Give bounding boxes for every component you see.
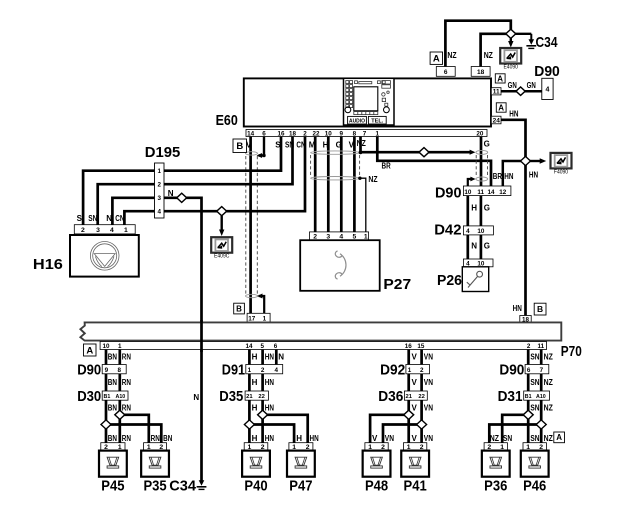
speaker P35 box [141,451,169,477]
svg-text:D35: D35 [219,388,243,405]
svg-text:10: 10 [464,189,472,196]
svg-text:GN: GN [527,81,536,90]
svg-text:14: 14 [487,189,495,196]
svg-text:2: 2 [261,367,265,374]
wire NZ from E60-7 to shields [361,133,471,152]
svg-text:D90: D90 [534,63,560,80]
speaker P40 box [242,451,270,477]
svg-text:18: 18 [477,69,485,76]
splice diamond (lower) [417,420,427,429]
pin box E60-24 (right side) [491,116,501,124]
connector strip P35 [144,443,167,451]
svg-text:H: H [252,403,258,412]
wire V from P70 to P48 (left of group) [407,350,410,443]
svg-text:20: 20 [476,130,484,137]
svg-text:SN: SN [503,434,512,443]
connector strip D36 [404,391,427,400]
ground C34 symbol [526,34,536,49]
svg-text:H16: H16 [33,256,63,273]
svg-text:BN: BN [108,378,117,387]
wire BR from E60-1 to D90-14 [377,133,491,186]
svg-text:P27: P27 [383,276,411,293]
svg-text:1: 1 [118,343,122,350]
wire GN from E60-11 to D90-4 [501,90,542,93]
control unit E60 (radio/nav) box [244,78,491,126]
label A (connector code) [430,52,442,65]
svg-text:H: H [252,434,258,443]
svg-text:AUDIO: AUDIO [349,118,365,124]
svg-text:3: 3 [157,195,161,202]
svg-text:P47: P47 [289,478,312,495]
svg-text:E409C: E409C [214,254,230,260]
connector strip D31 [524,391,550,400]
arrow from HN splice to F4090 [530,160,541,162]
connector strip D92 [406,365,430,374]
svg-text:RN: RN [122,403,131,412]
svg-text:A: A [497,74,503,83]
svg-text:CN: CN [296,141,305,150]
branch wire from lower splice [383,425,422,443]
svg-text:NZ: NZ [490,434,499,443]
svg-text:NZ: NZ [544,403,553,412]
P27 handset icon [335,251,346,279]
connector strip P70 (below bus) [100,342,546,350]
shield dashed lines (V wire) [245,156,247,294]
svg-text:2: 2 [527,343,531,350]
wire H from D90-10 to D42-4 [466,196,469,226]
wire G from E60-20 to D90-11 (shielded) [480,133,483,186]
svg-text:P45: P45 [101,478,124,495]
connector strip D91 [246,365,283,374]
svg-text:C34: C34 [169,478,196,495]
svg-text:12: 12 [499,189,507,196]
label A (near pin 11) [495,74,505,83]
svg-text:F4090: F4090 [554,169,568,175]
wire V from E60-14 to P70-17 (shielded) [249,133,252,313]
wire with arrow from CN splice to E409C [220,216,222,231]
svg-text:B: B [236,141,243,152]
svg-text:D92: D92 [380,362,405,379]
wire HN from P70 to group P40/P47 [261,350,264,443]
svg-text:SN: SN [88,214,97,223]
svg-text:G: G [336,141,342,150]
svg-text:11: 11 [477,189,484,196]
shield dashed lines (G wire) [475,155,477,177]
svg-text:S: S [275,141,281,150]
connector strip P36 [484,443,507,451]
svg-text:P35: P35 [143,478,166,495]
wire with arrow from splice down to E4090 [510,38,512,42]
device icon F4090 (ground point) [551,153,572,176]
svg-text:1: 1 [157,168,161,175]
connector strip D90 (middle) [463,186,511,196]
speaker P48 box [363,451,391,477]
wire NZ from E60 pin 18 to splice [481,34,507,67]
shield top lens (G wire) [476,150,488,154]
svg-text:A: A [433,54,440,65]
svg-text:6: 6 [262,130,266,137]
svg-text:2: 2 [81,227,85,234]
svg-text:2: 2 [157,181,161,188]
svg-text:6: 6 [274,343,278,350]
svg-text:SN: SN [530,352,539,361]
svg-text:NZ: NZ [447,51,456,60]
ground C34 (bottom) symbol [197,475,207,490]
svg-text:HN: HN [265,403,274,412]
wire BN from P70 to P45 (left of group) [105,350,108,443]
amplifier bus bar P70 [80,322,561,340]
svg-text:2: 2 [420,367,424,374]
label A (bottom right) [554,432,565,443]
branch wire from upper splice to P47 [263,415,308,443]
svg-text:11: 11 [537,343,544,350]
pin box 6 on top of E60 [436,67,455,77]
svg-text:P41: P41 [404,478,427,495]
svg-text:GN: GN [508,81,517,90]
svg-text:NZ: NZ [357,139,366,148]
svg-text:NZ: NZ [544,352,553,361]
svg-text:NZ: NZ [544,434,553,443]
wire CN from H16-1 via D195-4 to E60-2 [124,133,305,225]
wire RN from P70 to group P45/P35 [118,350,121,443]
connector strip P48 [365,443,388,451]
splice diamond (upper) [523,410,533,419]
svg-text:H: H [323,141,329,150]
connector strip P40 [244,443,268,451]
svg-text:4: 4 [275,367,279,374]
svg-text:N: N [193,393,199,402]
svg-text:E60: E60 [216,112,238,129]
svg-text:HN: HN [504,172,513,181]
svg-text:CN: CN [115,214,124,223]
svg-text:7: 7 [363,130,367,137]
svg-text:24: 24 [493,117,501,124]
svg-text:VN: VN [424,352,433,361]
wire V from E60-8 to P27-5 [353,133,356,232]
wire M from E60-22 to P27-2 (shielded bundle) [314,133,317,232]
svg-text:A: A [498,103,504,112]
wire N from D42-4 to P26-4 [466,235,469,259]
pin box E60-11 (right side) [491,88,501,95]
svg-text:V: V [372,434,378,443]
shield bottom lens (V wire) [246,294,258,297]
svg-text:V: V [412,378,418,387]
svg-text:N: N [106,214,112,223]
branch wire from lower splice [489,425,541,443]
svg-text:P46: P46 [523,478,546,495]
shield drain from E60-6 to shield top [259,133,265,156]
svg-text:G: G [484,140,490,149]
svg-text:4: 4 [545,87,549,94]
H16 steering wheel icon [90,242,119,271]
svg-text:22: 22 [312,130,320,137]
long wire N crossing bus (overdraw) [200,320,203,352]
svg-text:RN: RN [122,378,131,387]
svg-text:BN: BN [163,434,172,443]
svg-text:V: V [246,141,252,150]
wire G from E60-9 to P27-4 [340,133,343,232]
splice diamond HN (right side) [521,156,531,165]
wire NZ from P70 to group P36/P46 [540,350,543,443]
svg-text:G: G [484,241,490,250]
svg-text:SN: SN [285,141,294,150]
connector strip E60 (bottom pins) [246,130,487,137]
svg-text:RN: RN [122,352,131,361]
svg-text:14: 14 [247,130,255,137]
wire H from P70 to P40 (left of group) [248,350,251,443]
svg-text:16: 16 [405,343,413,350]
svg-text:NZ: NZ [484,51,493,60]
splice diamond (lower) [244,420,254,429]
svg-text:BN: BN [108,352,117,361]
svg-text:D30: D30 [77,388,101,405]
svg-text:14: 14 [245,343,253,350]
branch wire from lower splice [106,425,161,443]
svg-text:BN: BN [108,403,117,412]
svg-text:N: N [278,352,284,361]
svg-text:D42: D42 [434,222,461,239]
svg-text:P36: P36 [484,478,507,495]
svg-text:BR: BR [493,172,502,181]
connector strip P47 [289,443,313,451]
wire S from H16-2 via D195-1 to E60-16 [83,133,281,225]
svg-text:22: 22 [418,394,424,400]
svg-text:HN: HN [310,434,319,443]
connector strip P45 [101,443,125,451]
speaker P36 box [482,451,510,477]
svg-text:P70: P70 [561,343,582,360]
svg-text:8: 8 [353,130,357,137]
connector strip P41 [404,443,427,451]
connector strip D35 [245,391,268,400]
svg-text:HN: HN [529,171,538,180]
telephone unit P27 box [300,240,380,291]
svg-text:9: 9 [105,367,109,374]
svg-text:5: 5 [260,343,264,350]
wire SN from H16-3 via D195-2 to E60-18 [98,133,293,225]
svg-text:4: 4 [157,208,161,215]
connector strip P46 [523,443,546,451]
svg-text:11: 11 [493,89,500,96]
svg-text:V: V [412,403,418,412]
speaker P45 box [99,451,127,477]
svg-text:2: 2 [303,130,307,137]
svg-text:B: B [236,304,242,313]
svg-text:SN: SN [530,403,539,412]
svg-text:M: M [309,141,316,150]
svg-text:SN: SN [530,434,539,443]
branch wire from lower splice [249,425,294,443]
svg-text:BR: BR [382,162,391,171]
svg-text:10: 10 [325,130,333,137]
branch wire from upper splice to P35 [120,415,149,443]
svg-text:VN: VN [385,434,394,443]
svg-text:7: 7 [540,367,544,374]
wire HN from E60-24 down right side [501,120,526,316]
shield top lens (V wire) [246,152,258,155]
svg-text:18: 18 [289,130,297,137]
wire G from D42-10 to P26-10 [480,235,483,259]
svg-text:6: 6 [444,69,448,76]
connector strip P27 [310,232,369,240]
wire VN from P70 to group P48/P41 [420,350,423,443]
svg-text:D90: D90 [435,185,462,202]
pin box P70-18 [520,316,531,323]
microphone P26 box [462,267,488,292]
P26 microphone icon [467,271,483,287]
wire HN from splice to D90-12 [503,161,521,186]
splice diamond N [177,193,187,202]
svg-text:NZ: NZ [544,378,553,387]
svg-text:10: 10 [477,228,485,235]
svg-text:H: H [296,434,302,443]
svg-text:SN: SN [530,378,539,387]
svg-text:HN: HN [265,434,274,443]
splice diamond GN [516,87,525,95]
label A (below bus left) [84,344,97,356]
svg-text:21: 21 [405,394,412,400]
pin box 18 on top of E60 [471,67,490,77]
svg-text:BN: BN [108,434,117,443]
splice diamond (lower) [536,420,546,429]
pin box P70-17/1 [247,313,270,322]
svg-text:1: 1 [248,367,252,374]
connector strip D90 [102,365,126,374]
label B (bottom right) [534,303,546,315]
svg-text:G: G [484,203,490,212]
svg-text:S: S [77,214,83,223]
branch wire from upper splice to P48 [370,415,409,443]
svg-text:6: 6 [527,367,531,374]
svg-text:P40: P40 [244,478,267,495]
wire N to D91-4 [275,350,278,365]
svg-text:P26: P26 [437,272,462,289]
svg-text:H: H [252,378,258,387]
svg-text:HN: HN [509,110,518,119]
speaker P41 box [401,451,429,477]
speaker P47 box [287,451,315,477]
svg-text:3: 3 [96,227,100,234]
svg-text:H: H [252,352,258,361]
svg-text:B: B [537,304,543,314]
svg-text:VN: VN [424,434,433,443]
svg-text:D91: D91 [222,362,245,379]
svg-text:H: H [471,203,477,212]
svg-text:10: 10 [102,343,110,350]
svg-text:N: N [168,189,174,198]
svg-text:V: V [412,352,418,361]
shield dashed lines (M/H/G/V bundle) [310,155,312,177]
svg-text:D90: D90 [499,362,524,379]
svg-text:4: 4 [110,227,114,234]
svg-text:D31: D31 [498,388,523,405]
wire NZ from E60 pin 6 to splice [445,21,510,67]
wire N from H16-4 via D195-3 to splice [112,198,201,481]
shield bottom lens (bundle) [311,177,360,180]
svg-text:NZ: NZ [368,175,377,184]
svg-text:1: 1 [408,367,412,374]
splice diamond (NZ) [506,29,516,38]
svg-text:HN: HN [265,352,274,361]
wire H from E60-10 to P27-3 [327,133,330,232]
splice diamond (lower) [101,420,111,429]
svg-text:D36: D36 [378,388,403,405]
svg-text:A10: A10 [536,394,546,400]
connector box D90 pin 4 [542,78,553,99]
connector strip D90 [525,365,549,374]
connector strip D195 [155,163,165,218]
label B (E60 connector) [233,139,247,153]
svg-text:22: 22 [258,394,264,400]
shield drain (G wire) to D90-10 [468,179,472,186]
device icon E4090 (ground point) [500,48,521,71]
splice diamond (upper) [404,410,414,419]
svg-text:B1: B1 [104,394,111,400]
svg-text:C34: C34 [536,34,559,51]
svg-text:D195: D195 [145,144,181,161]
wire from splice to ground C34 [515,33,531,35]
device icon E409C (ground point) [211,237,232,260]
svg-text:A: A [86,345,93,356]
splice diamond NZ (shield line) [419,148,429,157]
label B (bottom left) [234,303,245,314]
splice diamond (upper) [258,410,268,419]
svg-text:1: 1 [124,227,128,234]
label A (near pin 24) [496,103,506,113]
svg-text:16: 16 [277,130,285,137]
svg-text:1: 1 [376,130,380,137]
svg-text:21: 21 [246,394,253,400]
svg-text:A10: A10 [116,394,126,400]
svg-text:V: V [349,141,355,150]
svg-text:HN: HN [265,378,274,387]
svg-text:B1: B1 [525,394,532,400]
shield drain from shield bottom to P70-1 [259,296,264,313]
svg-text:8: 8 [117,367,121,374]
svg-text:V: V [412,434,418,443]
wire G from D90-11 to D42-10 [480,196,483,226]
svg-text:RN: RN [122,434,131,443]
svg-text:HN: HN [513,304,522,313]
connector strip D30 [102,391,128,400]
connector strip D42 [463,226,493,235]
svg-text:RN: RN [151,434,160,443]
svg-text:E4090: E4090 [503,65,518,71]
wire SN from P70 to P36 (left of group) [527,350,530,443]
E60 radio faceplate icon [344,78,395,125]
svg-text:VN: VN [424,403,433,412]
shield drain to P27-1 [358,177,361,180]
svg-text:9: 9 [340,130,344,137]
branch wire from upper splice to P36 [502,415,528,443]
speaker P46 box [521,451,549,477]
svg-text:4: 4 [466,228,470,235]
connector strip P26 [463,259,493,267]
svg-text:VN: VN [424,378,433,387]
svg-text:TEL.: TEL. [371,118,384,124]
connector strip on H16 [74,225,135,234]
svg-text:N: N [471,241,477,250]
svg-text:15: 15 [417,343,425,350]
splice diamond (upper) [115,410,125,419]
svg-text:A: A [556,433,562,442]
shield bottom lens (G wire) [476,177,488,181]
steering wheel control unit H16 box [70,235,139,277]
svg-text:P48: P48 [365,478,388,495]
splice diamond CN [217,207,227,216]
svg-text:D90: D90 [77,362,101,379]
shield top lens (bundle) [311,151,360,154]
